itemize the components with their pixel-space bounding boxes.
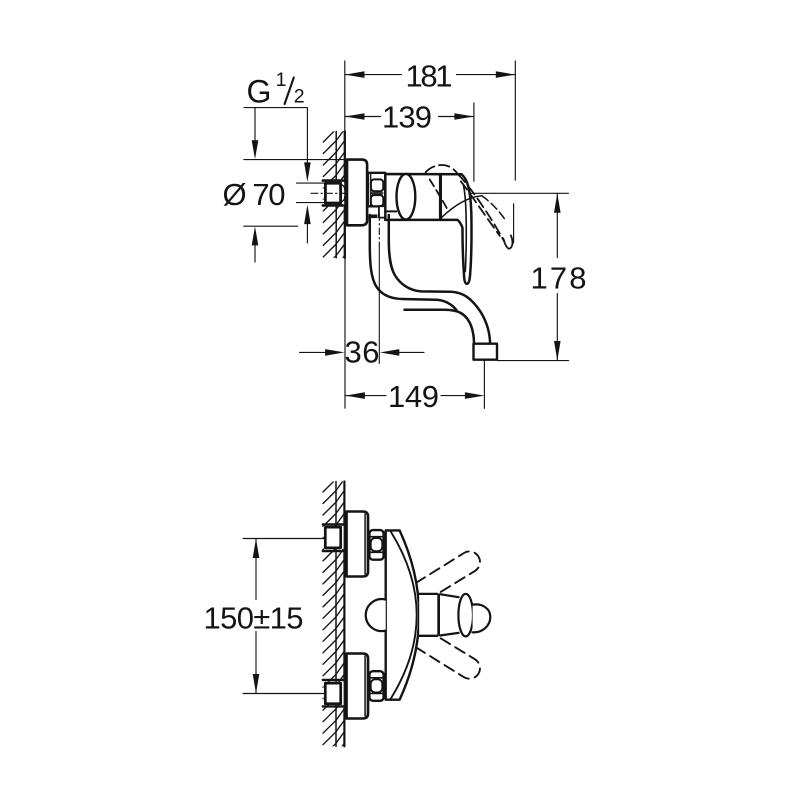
extension line right of 139 [473,103,475,181]
body cover inner arc [391,532,417,699]
extension line right of 181 [514,61,516,243]
wall inner boundary line (lower) [335,482,337,747]
lever swing arc (solid part) [441,196,482,219]
wall face line (upper) [344,131,346,257]
dashed lever raised: upper silhouette [458,174,504,241]
upper escutcheon flange (top view) [347,512,369,577]
spout tube right edge becoming top edge and outer bend [389,215,490,344]
extension line top of escutcheon [244,159,346,161]
lower G1/2 square fitting [325,683,340,704]
extension line spout axis (36 dim) [378,214,380,246]
diameter 70 dimension line (lower part) [252,226,259,245]
svg-text:1: 1 [276,69,287,91]
svg-text:Ø 70: Ø 70 [223,177,286,212]
svg-text:36: 36 [345,335,380,370]
union hex nut (upper drawing) [368,173,385,207]
dimension 150±15 line [255,539,257,694]
G1/2 dimension arrow (up) with tail [304,205,311,225]
extension lines of G1/2 dimension [297,183,326,203]
wall hatch (top view, lower drawing) [323,467,344,767]
faucet body with end cap and lever blade (solid, down position) [385,174,471,284]
spout neck (top view) [419,595,437,635]
spout connection piece under nut [379,206,385,217]
nipple flange hooks at wall [342,185,345,201]
extension line bottom of 178 (spout outlet) [498,360,569,362]
spout bend end ellipse [458,594,473,637]
extension line to upper connection [243,538,325,540]
dimension 139 line [345,116,474,118]
svg-text:150±15: 150±15 [204,601,304,636]
dimension 181 line [345,74,515,76]
lower union hex nut (top view) [369,671,383,701]
G1/2 square fitting in wall [325,183,340,203]
pipe socket edge above G1/2 square [323,179,343,182]
extension line left of 181/139 (wall face) [344,61,346,131]
clearance around G1/2 square [324,182,345,204]
extension line bottom of escutcheon [244,225,298,227]
svg-text:149: 149 [388,379,439,414]
cartridge section bottom edge [385,210,396,212]
lever gap black bar [439,174,442,220]
G1/2 dimension arrow (down) [304,162,311,182]
spout tube bottom edge becoming inner bend [405,310,475,344]
wall face line (lower) [343,482,345,747]
lever blade inner line [463,185,466,272]
dimension 178 line [556,193,558,360]
spout tube left edge becoming middle contour [370,215,456,310]
pipe socket edge below G1/2 square [323,204,343,207]
cartridge dome [397,174,416,220]
dashed lever position down-right (top view) [416,636,480,678]
wall inner boundary line (upper) [335,131,337,257]
extension line to lower connection [243,693,325,695]
upper supply socket edges [323,525,343,552]
G1/2 leader line [244,108,307,166]
upper union hex nut (top view) [369,530,383,560]
dark bar under nut [369,215,378,219]
svg-text:2: 2 [294,86,305,108]
lower supply socket edges [323,680,343,707]
escutcheon flange (upper drawing) [347,160,367,226]
cartridge housing bump at back [366,599,386,631]
dashed lever raised: lower silhouette [461,181,500,236]
svg-text:178: 178 [531,261,587,296]
spout ring [437,594,440,636]
svg-text:139: 139 [382,100,432,135]
extension line right of 149 (outlet center) [483,360,485,409]
wall hatch (side view, upper drawing) [323,117,345,280]
dashed lever position up-right (top view) [416,551,480,593]
svg-text:G: G [247,74,272,110]
spout second cylinder [440,594,459,635]
centerline of faucet axis [311,192,352,194]
body cover lens (top view) [386,530,419,699]
dimension 149 line [345,395,465,397]
dashed lever raised: top arc [426,165,458,174]
upper G1/2 square fitting [325,527,340,548]
extension line wall face to bottom dims [344,258,346,408]
lower escutcheon flange (top view) [347,654,369,719]
dashed lever raised: inner diagonal [430,180,449,212]
spout aerator end box [474,344,498,360]
svg-text:181: 181 [406,59,453,94]
lever swing arc (dashed part) [482,196,505,220]
dimension 36 [300,351,326,353]
aerator knob [473,604,491,632]
dashed lever raised: tip hook [503,235,512,248]
diameter 70 dimension line (upper part) [254,108,256,142]
